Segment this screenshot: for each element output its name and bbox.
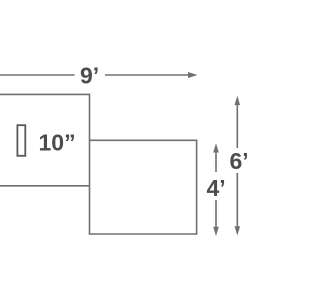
- arrowhead down of 6' line: [235, 226, 241, 235]
- arrowhead up of 6' line: [235, 96, 241, 105]
- wire: left room top edge: [0, 93, 90, 95]
- svg-text:9’: 9’: [80, 63, 99, 89]
- door icon 10 inch: [17, 125, 25, 156]
- wire: left room bottom edge: [0, 185, 90, 187]
- wire: 9' dimension line left segment: [0, 74, 75, 76]
- wire: 4' dimension line upper segment: [215, 151, 217, 172]
- wire: right room top edge: [90, 139, 197, 141]
- arrowhead right of 9' line: [188, 72, 198, 78]
- svg-text:6’: 6’: [230, 148, 248, 174]
- wire: 6' dimension line lower segment: [236, 173, 238, 227]
- svg-text:4’: 4’: [207, 175, 226, 201]
- arrowhead down of 4' line: [213, 227, 219, 236]
- wire: shared vertical edge between rooms: [89, 94, 91, 235]
- wire: right room right edge: [196, 140, 198, 235]
- svg-text:10”: 10”: [39, 130, 76, 156]
- wire: 9' dimension line right segment: [105, 74, 189, 76]
- arrowhead up of 4' line: [213, 143, 219, 152]
- wire: right room bottom edge: [90, 233, 197, 235]
- wire: 6' dimension line upper segment: [236, 104, 238, 148]
- wire: 4' dimension line lower segment: [215, 200, 217, 228]
